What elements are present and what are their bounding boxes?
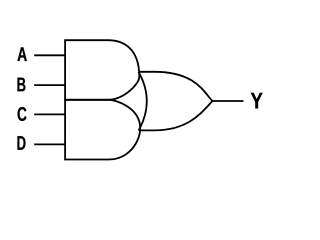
OR gate U3 back arc [139,72,147,131]
AND gate U1 (inputs A,B) [65,40,139,100]
AND gate U2 (inputs C,D) [65,100,140,160]
OR gate U3 bottom curve [139,101,213,130]
wire C [34,113,65,115]
output label Y [251,93,263,109]
input label D [17,136,25,150]
OR gate U3 top curve [139,72,213,101]
wire A [34,54,65,56]
wire B [34,84,65,86]
wire Y output [213,100,244,102]
wire D [34,143,65,145]
input label B [17,78,25,92]
input label C [18,107,27,121]
input label A [17,47,26,61]
